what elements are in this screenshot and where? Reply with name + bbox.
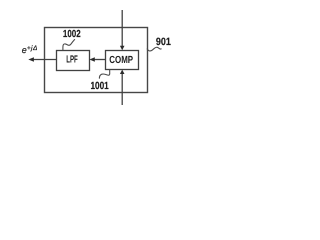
svg-text:LPF: LPF [66,55,78,66]
svg-text:901: 901 [156,36,171,48]
svg-text:1001: 1001 [90,81,108,92]
svg-text:COMP: COMP [109,55,133,66]
svg-text:1002: 1002 [63,29,81,40]
svg-text:e+jΔ: e+jΔ [22,45,38,55]
